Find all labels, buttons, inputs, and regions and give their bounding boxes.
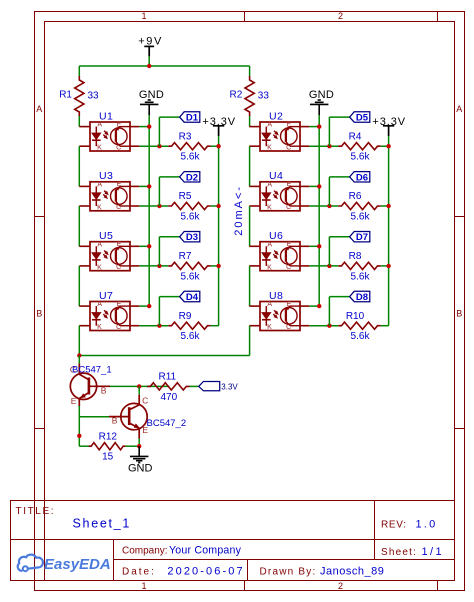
wire Q2.E down <box>138 439 140 446</box>
net flag +9V <box>138 35 163 66</box>
net port D6 <box>350 172 370 184</box>
ground GND bottom <box>128 446 153 474</box>
optocoupler U7 <box>79 290 139 331</box>
resistor R5 5.6k <box>168 191 210 222</box>
wire GND to U1.E rail <box>148 115 150 306</box>
transistor Q1 BC547_1 <box>70 363 112 406</box>
svg-text:2: 2 <box>338 11 343 21</box>
svg-text:R6: R6 <box>349 191 362 202</box>
wire D3 flag <box>159 237 179 266</box>
net port D8 <box>350 291 370 303</box>
svg-text:B: B <box>112 416 118 426</box>
svg-text:BC547_2: BC547_2 <box>147 418 187 429</box>
wire R10 to +3.3V rail <box>381 325 389 327</box>
wire U7.E to GND rail <box>139 305 149 307</box>
wire D8 flag <box>329 297 349 326</box>
wire D4 flag <box>159 297 179 326</box>
junction +3.3V right row 1 <box>386 144 390 148</box>
svg-text:Janosch_89: Janosch_89 <box>320 566 384 578</box>
wire R11 to 3.3V port <box>190 385 199 387</box>
wire U6.E to GND rail <box>309 245 319 247</box>
svg-text:A: A <box>267 301 272 308</box>
junction emitter node <box>77 434 81 438</box>
net port D7 <box>350 232 370 244</box>
wire R1 to U1.A <box>78 116 80 127</box>
wire Q2 collector <box>138 386 140 394</box>
ground GND top-right <box>309 89 334 116</box>
svg-text:R12: R12 <box>99 431 118 442</box>
wire R7 to +3.3V rail <box>211 265 219 267</box>
svg-text:D3: D3 <box>186 232 198 243</box>
label 20mA<- <box>233 185 245 236</box>
svg-text:A: A <box>267 181 272 188</box>
wire U8.E to GND rail <box>309 305 319 307</box>
svg-text:D4: D4 <box>186 292 199 303</box>
svg-text:R5: R5 <box>179 191 192 202</box>
svg-text:5.6k: 5.6k <box>351 271 371 282</box>
optocoupler U2 <box>249 110 309 151</box>
svg-text:33: 33 <box>258 91 270 102</box>
svg-text:5.6k: 5.6k <box>351 152 371 163</box>
resistor R1 33 <box>59 76 99 116</box>
svg-text:R4: R4 <box>349 131 362 142</box>
svg-text:K: K <box>267 324 272 331</box>
svg-text:1: 1 <box>141 11 146 21</box>
optocoupler U4 <box>249 170 309 211</box>
EasyEDA logo <box>18 555 111 573</box>
svg-text:R10: R10 <box>346 311 365 322</box>
junction D5 tap <box>327 144 331 148</box>
svg-text:B: B <box>101 385 107 395</box>
resistor R2 33 <box>230 76 270 116</box>
svg-text:1.0: 1.0 <box>416 519 438 531</box>
wire U7.C to R9 <box>139 325 168 327</box>
junction Q2 collector tap <box>137 384 141 388</box>
net flag +3.3V right <box>372 116 406 146</box>
junction +3.3V left row 3 <box>216 264 220 268</box>
junction Q1 collector node <box>77 353 81 357</box>
svg-text:D5: D5 <box>356 113 369 124</box>
title value Janosch_89 <box>320 566 384 578</box>
junction D3 tap <box>157 264 161 268</box>
svg-text:U2: U2 <box>269 110 283 122</box>
junction U7.E <box>147 304 151 308</box>
wire U1.C to R3 <box>139 145 168 147</box>
wire U6.C to R8 <box>309 265 338 267</box>
svg-text:GND: GND <box>139 89 164 101</box>
svg-text:GND: GND <box>309 89 334 101</box>
wire U5.C to R7 <box>139 265 168 267</box>
wire U2.C to R4 <box>309 145 338 147</box>
svg-text:5.6k: 5.6k <box>181 211 201 222</box>
optocoupler U8 <box>249 290 309 331</box>
wire R3 to +3.3V rail <box>211 145 219 147</box>
svg-text:A: A <box>456 104 462 114</box>
svg-text:1: 1 <box>141 581 146 591</box>
resistor R10 5.6k <box>338 311 380 342</box>
title label Date: <box>122 566 156 577</box>
junction +3.3V left row 2 <box>216 204 220 208</box>
junction U5.E <box>147 244 151 248</box>
wire R2 to U2.A <box>249 116 251 127</box>
svg-text:1/1: 1/1 <box>422 546 445 558</box>
optocoupler U3 <box>79 170 139 211</box>
svg-text:D8: D8 <box>356 292 368 303</box>
svg-text:5.6k: 5.6k <box>351 211 371 222</box>
svg-text:K: K <box>267 264 272 271</box>
title label Company: <box>122 546 168 557</box>
svg-text:TITLE:: TITLE: <box>16 506 56 517</box>
svg-text:A: A <box>267 122 272 129</box>
svg-text:2: 2 <box>338 581 343 591</box>
title label REV: <box>381 520 407 531</box>
wire D1 flag <box>159 117 179 146</box>
svg-text:R9: R9 <box>179 311 192 322</box>
svg-text:E: E <box>71 396 77 406</box>
optocoupler U6 <box>249 230 309 271</box>
optocoupler U1 <box>79 110 139 151</box>
wire U3.K to U5.A <box>78 206 80 246</box>
wire U5.E to GND rail <box>139 245 149 247</box>
svg-text:D7: D7 <box>356 232 368 243</box>
junction +3.3V right row 2 <box>386 204 390 208</box>
wire U7.K down to Q1 node <box>78 326 80 356</box>
wire R6 to +3.3V rail <box>381 205 389 207</box>
svg-text:5.6k: 5.6k <box>181 271 201 282</box>
svg-text:K: K <box>97 264 102 271</box>
wire GND to U2.E rail <box>318 115 320 306</box>
svg-text:B: B <box>456 309 462 319</box>
svg-text:Sheet:: Sheet: <box>381 547 417 558</box>
wire U2.K to U4.A <box>249 146 251 186</box>
svg-text:A: A <box>97 241 102 248</box>
svg-text:R7: R7 <box>179 251 192 262</box>
svg-text:R1: R1 <box>59 89 72 100</box>
wire rail to R1 <box>78 66 80 76</box>
title value Your Company <box>169 545 242 557</box>
svg-text:GND: GND <box>128 462 153 474</box>
svg-text:K: K <box>267 204 272 211</box>
svg-text:R8: R8 <box>349 251 362 262</box>
wire +3.3V rail right <box>388 146 390 326</box>
svg-text:K: K <box>267 145 272 152</box>
title value Sheet_1 <box>73 516 131 530</box>
svg-text:A: A <box>97 181 102 188</box>
wire U4.K to U6.A <box>249 206 251 246</box>
wire D6 flag <box>329 177 349 206</box>
svg-text:Date:: Date: <box>122 566 156 577</box>
junction D8 tap <box>327 324 331 328</box>
junction D2 tap <box>157 204 161 208</box>
svg-text:Sheet_1: Sheet_1 <box>73 516 131 530</box>
svg-text:K: K <box>97 324 102 331</box>
svg-text:U3: U3 <box>99 170 113 182</box>
junction U6.E <box>317 244 321 248</box>
wire U4.E to GND rail <box>309 185 319 187</box>
wire D7 flag <box>329 237 349 266</box>
svg-text:A: A <box>267 241 272 248</box>
title label TITLE: <box>16 506 56 517</box>
svg-text:20mA<-: 20mA<- <box>233 185 245 236</box>
wire U2.E to GND rail <box>309 126 319 128</box>
wire U3.C to R5 <box>139 205 168 207</box>
junction +3.3V right row 3 <box>386 264 390 268</box>
svg-text:U7: U7 <box>99 290 113 302</box>
svg-text:Your Company: Your Company <box>169 545 242 557</box>
net port D3 <box>180 232 200 244</box>
wire D2 flag <box>159 177 179 206</box>
svg-text:D1: D1 <box>186 113 199 124</box>
svg-text:2020-06-07: 2020-06-07 <box>167 565 244 577</box>
svg-text:REV:: REV: <box>381 520 407 531</box>
svg-text:470: 470 <box>160 392 177 403</box>
resistor R11 470 <box>147 372 189 403</box>
net port D1 <box>180 112 200 124</box>
resistor R6 5.6k <box>338 191 380 222</box>
title value 2020-06-07 <box>167 565 244 577</box>
junction +9V rail <box>147 64 151 68</box>
wire U1.K to U3.A <box>78 146 80 186</box>
title label Sheet: <box>381 547 417 558</box>
wire Q1.B to R11 <box>110 385 169 387</box>
junction U3.E <box>147 184 151 188</box>
title value 1.0 <box>416 519 438 531</box>
wire U6.K to U8.A <box>249 266 251 306</box>
svg-text:3.3V: 3.3V <box>221 382 238 391</box>
transistor Q2 BC547_2 <box>109 395 186 439</box>
svg-text:Drawn By:: Drawn By: <box>260 567 317 578</box>
wire +9V rail <box>79 65 249 67</box>
svg-text:A: A <box>97 301 102 308</box>
resistor R12 15 <box>89 431 126 462</box>
wire D5 flag <box>329 117 349 146</box>
resistor R3 5.6k <box>168 131 210 162</box>
wire to R12 <box>79 445 89 447</box>
svg-text:5.6k: 5.6k <box>181 331 201 342</box>
net port 3.3V <box>199 382 239 392</box>
resistor R9 5.6k <box>168 311 210 342</box>
junction D1 tap <box>157 144 161 148</box>
junction D6 tap <box>327 204 331 208</box>
resistor R7 5.6k <box>168 251 210 282</box>
svg-text:Company:: Company: <box>122 546 168 557</box>
junction U4.E <box>317 184 321 188</box>
wire Q1.E to Q2.B <box>79 416 109 418</box>
svg-text:U1: U1 <box>99 110 113 122</box>
ground GND top-left <box>139 89 164 116</box>
wire Q1.E down <box>78 406 80 446</box>
junction U2.E <box>317 124 321 128</box>
svg-text:K: K <box>97 145 102 152</box>
svg-text:U5: U5 <box>99 230 113 242</box>
svg-text:EasyEDA: EasyEDA <box>44 556 111 573</box>
net port D5 <box>350 112 370 124</box>
junction +3.3V left row 1 <box>216 144 220 148</box>
wire rail to R2 <box>249 66 251 76</box>
junction U1.E <box>147 124 151 128</box>
wire U8.K down and across <box>79 326 249 356</box>
optocoupler U5 <box>79 230 139 271</box>
wire U8.C to R10 <box>309 325 338 327</box>
junction D4 tap <box>157 324 161 328</box>
wire U1.E to GND rail <box>139 126 149 128</box>
svg-text:R11: R11 <box>158 372 176 383</box>
wire to Q1 collector <box>78 356 80 364</box>
wire U4.C to R6 <box>309 205 338 207</box>
wire U5.K to U7.A <box>78 266 80 306</box>
resistor R8 5.6k <box>338 251 380 282</box>
svg-text:BC547_1: BC547_1 <box>72 365 112 376</box>
svg-text:K: K <box>97 204 102 211</box>
wire R8 to +3.3V rail <box>381 265 389 267</box>
svg-text:R3: R3 <box>179 131 192 142</box>
svg-text:A: A <box>36 104 42 114</box>
svg-text:5.6k: 5.6k <box>181 152 201 163</box>
svg-text:R2: R2 <box>230 89 243 100</box>
svg-text:B: B <box>36 309 42 319</box>
wire R4 to +3.3V rail <box>381 145 389 147</box>
junction U8.E <box>317 304 321 308</box>
svg-text:D2: D2 <box>186 172 198 183</box>
net port D2 <box>180 172 200 184</box>
wire R12 to GND <box>126 445 140 447</box>
svg-text:U4: U4 <box>269 170 283 182</box>
net flag +3.3V left <box>202 116 236 146</box>
wire R5 to +3.3V rail <box>211 205 219 207</box>
title block grid <box>11 501 455 581</box>
junction GND node <box>137 444 141 448</box>
net port D4 <box>180 291 200 303</box>
svg-text:U6: U6 <box>269 230 283 242</box>
wire +3.3V rail left <box>218 146 220 326</box>
svg-text:5.6k: 5.6k <box>351 331 371 342</box>
svg-text:D6: D6 <box>356 172 368 183</box>
svg-text:C: C <box>142 396 148 406</box>
svg-text:33: 33 <box>88 91 100 102</box>
resistor R4 5.6k <box>338 131 380 162</box>
title value 1/1 <box>422 546 445 558</box>
wire R9 to +3.3V rail <box>211 325 219 327</box>
junction D7 tap <box>327 264 331 268</box>
title label Drawn By: <box>260 567 317 578</box>
wire U3.E to GND rail <box>139 185 149 187</box>
svg-text:U8: U8 <box>269 290 283 302</box>
svg-text:A: A <box>97 122 102 129</box>
svg-text:15: 15 <box>102 452 114 463</box>
